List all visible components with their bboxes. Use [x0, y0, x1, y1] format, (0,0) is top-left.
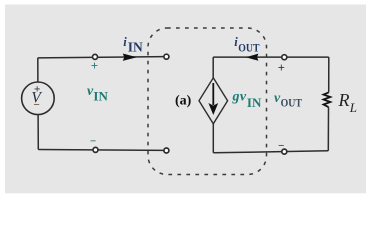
svg-text:OUT: OUT: [281, 96, 302, 110]
terminal circle port in top: [164, 54, 169, 59]
dashed two-port box: [148, 28, 267, 175]
wire left vertical lower: [37, 115, 39, 150]
wire bottom-left: [38, 149, 163, 152]
arrow inside diamond: [212, 83, 214, 105]
svg-text:IN: IN: [93, 88, 108, 103]
terminal circle port out top: [282, 55, 287, 60]
svg-text:v: v: [240, 90, 247, 105]
svg-text:OUT: OUT: [238, 41, 259, 55]
wire left vertical upper: [37, 58, 39, 82]
background panel: [5, 5, 366, 194]
svg-text:−: −: [90, 135, 96, 147]
svg-text:−: −: [34, 99, 40, 111]
svg-text:L: L: [349, 100, 357, 115]
voltage source V: [22, 82, 55, 115]
svg-text:+: +: [91, 59, 98, 73]
svg-text:i: i: [123, 35, 127, 49]
svg-text:IN: IN: [247, 95, 262, 110]
dependent current source diamond: [199, 78, 228, 124]
svg-text:R: R: [338, 90, 350, 110]
wire right vertical upper: [328, 57, 330, 92]
svg-text:(a): (a): [175, 94, 192, 109]
wire branch top stub: [212, 57, 214, 78]
output current arrow: [246, 54, 259, 61]
input current arrow: [123, 54, 137, 61]
node circle input top: [93, 54, 98, 59]
wire top-left: [38, 57, 164, 58]
svg-text:IN: IN: [128, 39, 143, 54]
wire right vertical lower: [327, 107, 329, 151]
wire branch bottom stub: [212, 124, 214, 153]
terminal circle port in bottom: [164, 148, 169, 153]
node circle input bottom: [93, 147, 98, 152]
wire output bottom: [213, 151, 328, 153]
resistor R_L zigzag: [324, 92, 331, 107]
svg-text:+: +: [278, 61, 285, 75]
svg-text:g: g: [232, 90, 240, 105]
terminal circle port out bottom: [282, 149, 287, 154]
wire output top: [213, 56, 329, 58]
